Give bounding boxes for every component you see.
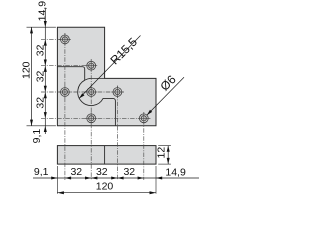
bottom extension line part left edge (56, 166, 58, 194)
arrows bottom chain (51, 177, 162, 195)
centerline col B-D-E x=91.2 (90, 59, 92, 180)
centerline row C-D-G y=92 (41, 91, 124, 93)
svg-text:14,9: 14,9 (165, 166, 186, 178)
internal step contour with corner boss arc R15.5 (57, 67, 115, 126)
svg-text:32: 32 (96, 166, 108, 178)
centerline row E-F y=118.3 (41, 117, 151, 119)
svg-text:32: 32 (35, 97, 47, 109)
centerline row B y=65.7 (41, 65, 98, 67)
12 dimension line (167, 146, 169, 165)
svg-text:9,1: 9,1 (34, 166, 49, 178)
svg-text:32: 32 (70, 166, 82, 178)
bottom extension line part right edge (155, 166, 157, 194)
svg-text:120: 120 (21, 61, 33, 79)
centerline row A y=39.4 (41, 38, 71, 40)
extension line top edge left (27, 26, 56, 28)
hole C (61, 88, 70, 97)
hole G (113, 88, 122, 97)
hole E (87, 114, 96, 123)
centerline col F x=143.8 (143, 112, 145, 180)
centerline col A-C x=64.9 (64, 33, 66, 180)
svg-text:32: 32 (35, 44, 47, 56)
boss top tangent arc and line to inner corner (85, 78, 105, 80)
svg-text:120: 120 (96, 181, 114, 193)
svg-text:14,9: 14,9 (37, 1, 49, 22)
svg-text:32: 32 (35, 70, 47, 82)
side view rectangle (57, 146, 156, 165)
hole B (87, 61, 96, 70)
extension line bottom edge left (27, 125, 56, 127)
svg-text:R15,5: R15,5 (107, 35, 140, 68)
leader O6 (147, 77, 184, 115)
svg-text:9,1: 9,1 (31, 129, 43, 144)
hole A (61, 35, 70, 44)
arrows left chain (30, 21, 47, 132)
hole D center boss (87, 88, 96, 97)
svg-text:32: 32 (123, 166, 135, 178)
hole center cross ticks (59, 33, 150, 124)
centerline col G x=117.4 (116, 86, 118, 181)
bottom 120 dimension line (57, 192, 156, 194)
part outline L-shape plan view (57, 27, 156, 126)
leader R15,5 (79, 36, 141, 99)
hole F (139, 114, 148, 123)
left dimension chain line (44, 8, 46, 134)
svg-text:Ø6: Ø6 (158, 72, 179, 93)
bottom dimension chain line (33, 177, 199, 179)
extension lines 12 dim right of side view (158, 145, 171, 147)
left 120 dimension line (31, 27, 33, 126)
svg-text:12: 12 (156, 147, 168, 159)
side view internal edge line (104, 146, 106, 165)
